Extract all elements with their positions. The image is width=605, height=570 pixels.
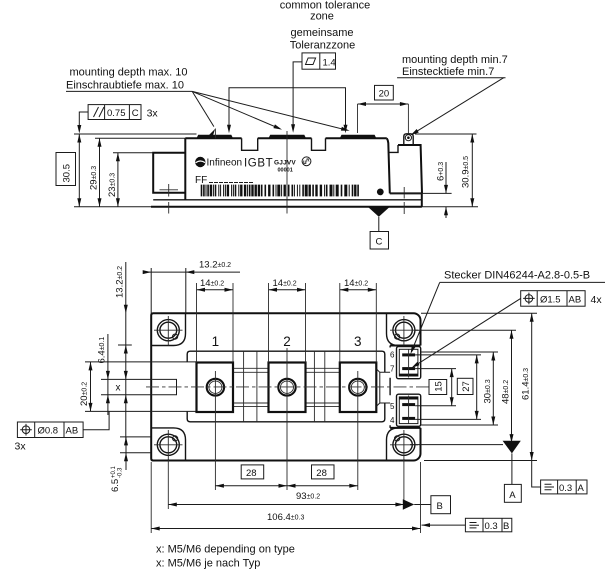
connector shoulder xyxy=(389,145,398,152)
datum B box xyxy=(431,496,451,514)
svg-text:14±0.2: 14±0.2 xyxy=(344,278,368,289)
svg-text:48±0.2: 48±0.2 xyxy=(501,380,512,404)
flatness leader to boss 2 xyxy=(293,62,302,130)
leader fan to bosses xyxy=(192,91,214,126)
main horizontal centerline xyxy=(146,386,432,388)
boss 2 centerline xyxy=(286,131,288,214)
datum C triangle xyxy=(368,207,389,217)
svg-text:61.4±0.3: 61.4±0.3 xyxy=(521,368,532,400)
deck ribs between terminals xyxy=(244,351,325,422)
svg-text:00001: 00001 xyxy=(278,168,293,174)
module body top edge xyxy=(185,137,386,139)
dimension 30.9±0.5 xyxy=(471,134,473,207)
dimension 6.4±0.1 (slot) xyxy=(107,334,109,415)
svg-text:20: 20 xyxy=(379,89,390,100)
dimension 61.4±0.3 xyxy=(531,313,533,483)
dimension 20±0.2 (channel) xyxy=(90,362,92,412)
barcode xyxy=(201,185,359,197)
body right edge xyxy=(387,138,390,193)
svg-text:gemeinsame: gemeinsame xyxy=(291,27,354,39)
dimension 6 +0.3 xyxy=(445,162,447,193)
pin block upper xyxy=(397,347,421,379)
svg-text:IGBT: IGBT xyxy=(244,158,273,170)
svg-text:29±0.3: 29±0.3 xyxy=(89,166,100,190)
svg-text:0.75: 0.75 xyxy=(107,108,126,119)
dimension 30.5 boxed xyxy=(56,153,76,186)
screw boss 3 xyxy=(340,135,377,139)
dimension 14±0.2 terminal 2 xyxy=(269,289,306,291)
svg-text:6.5: 6.5 xyxy=(110,479,121,492)
dimension 48±0.2 xyxy=(511,330,513,444)
module outline xyxy=(151,313,420,460)
dimension 23±0.3 xyxy=(117,153,119,207)
terminal 2 square xyxy=(269,363,306,413)
svg-text:3x: 3x xyxy=(147,108,159,120)
svg-text:A: A xyxy=(578,483,585,494)
connector ledge xyxy=(390,192,422,194)
right channel walls xyxy=(380,372,390,403)
left channel walls xyxy=(152,362,196,412)
hole centerline crosses xyxy=(154,316,418,346)
terminal centerlines extended down xyxy=(215,348,357,490)
svg-text:28: 28 xyxy=(246,468,257,479)
svg-text:30±0.3: 30±0.3 xyxy=(483,379,494,403)
svg-text:3: 3 xyxy=(354,334,362,349)
corner lobe top-right xyxy=(387,313,399,345)
dimension 14±0.2 terminal 1 xyxy=(197,289,234,291)
svg-text:mounting depth min.7: mounting depth min.7 xyxy=(402,54,508,66)
svg-text:4x: 4x xyxy=(591,294,603,306)
svg-text:7: 7 xyxy=(390,365,395,374)
terminal 3 square xyxy=(340,363,377,413)
datum B triangle xyxy=(403,499,414,509)
extension lines left channel/slot xyxy=(85,362,152,412)
svg-text:3x: 3x xyxy=(15,441,27,453)
boss 1 centerline stub xyxy=(214,129,216,139)
svg-text:GJJVV: GJJVV xyxy=(274,160,296,167)
svg-text:AB: AB xyxy=(66,426,79,437)
leader Stecker to pin 6 xyxy=(412,282,440,351)
screw boss 2 xyxy=(269,135,307,139)
svg-text:14±0.2: 14±0.2 xyxy=(200,278,224,289)
dimension 28 boxed second xyxy=(312,465,335,479)
UL mark xyxy=(302,157,311,166)
right edge lower xyxy=(421,193,423,206)
corner lobe bottom-right xyxy=(387,428,399,461)
svg-text:zone: zone xyxy=(310,11,334,23)
svg-text:4: 4 xyxy=(390,416,395,425)
svg-text:x: M5/M6 depending on type: x: M5/M6 depending on type xyxy=(156,544,295,556)
bridge lines between terminals xyxy=(233,368,340,372)
dimension 27 boxed xyxy=(457,378,473,394)
corner lobe bottom-left xyxy=(151,428,185,461)
svg-text:14±0.2: 14±0.2 xyxy=(273,278,297,289)
terminal 1 square xyxy=(197,363,234,413)
svg-text:mounting depth max. 10: mounting depth max. 10 xyxy=(70,67,188,79)
svg-text:Stecker DIN46244-A2.8-0.5-B: Stecker DIN46244-A2.8-0.5-B xyxy=(444,270,590,282)
flatness frame 0.3 A xyxy=(541,480,587,494)
svg-text:Toleranzzone: Toleranzzone xyxy=(290,40,355,52)
pin receptacle circle xyxy=(405,135,411,141)
svg-text:B: B xyxy=(503,521,509,532)
svg-text:23±0.3: 23±0.3 xyxy=(107,173,118,197)
dimension 93±0.2 xyxy=(168,504,404,506)
datum C box xyxy=(370,232,388,250)
left nut slot x xyxy=(152,379,176,394)
flatness frame 0.3 B xyxy=(465,518,511,532)
mounting hole bottom-right xyxy=(393,434,415,455)
bay wall segments xyxy=(389,346,391,428)
leader frame to pin 7 xyxy=(414,298,521,366)
bay ceiling and floor (right recess) xyxy=(390,345,420,347)
svg-text:13.2±0.2: 13.2±0.2 xyxy=(199,260,231,271)
svg-text:Ø0.8: Ø0.8 xyxy=(38,426,59,437)
terminal 2 screw hole xyxy=(278,379,295,396)
dimension 29±0.3 xyxy=(99,138,101,207)
notch between boss1 and boss2 xyxy=(242,138,258,150)
dimension 106.4±0.3 xyxy=(151,528,420,530)
svg-text:FF: FF xyxy=(195,175,207,186)
dimension 30±0.3 xyxy=(492,352,494,425)
dimension 20 boxed xyxy=(375,85,394,100)
notch between boss2 and boss3 xyxy=(312,138,326,150)
dimension 13.2±0.2 vertical left xyxy=(125,262,127,440)
svg-text:x: M5/M6 je nach Typ: x: M5/M6 je nach Typ xyxy=(156,558,260,570)
corner lobe top-left xyxy=(151,313,185,345)
svg-text:AB: AB xyxy=(569,295,582,306)
hole centerline ticks left xyxy=(168,184,170,197)
tolerance zone bracket xyxy=(229,88,346,130)
Infineon logo xyxy=(195,157,205,167)
dimension 14±0.2 terminal 3 xyxy=(340,289,377,291)
datum A triangle xyxy=(503,441,521,454)
svg-text:Einschraubtiefe max. 10: Einschraubtiefe max. 10 xyxy=(66,80,184,92)
svg-text:0.3: 0.3 xyxy=(559,483,572,494)
position frame Ø1.5 AB 4x xyxy=(521,291,585,307)
case bottom line xyxy=(153,199,422,201)
terminal 3 screw hole xyxy=(349,379,366,396)
pin block lower xyxy=(397,394,421,426)
leader from Ø0.8 frame xyxy=(83,411,109,429)
mounting hole bottom-left xyxy=(157,434,179,455)
svg-text:Einstecktiefe min.7: Einstecktiefe min.7 xyxy=(402,66,494,78)
svg-text:15: 15 xyxy=(434,381,445,392)
svg-text:0.3: 0.3 xyxy=(485,521,498,532)
screw head dot xyxy=(377,189,384,196)
baseplate bottom / dimension baseline xyxy=(74,206,478,208)
svg-text:30.5: 30.5 xyxy=(62,164,73,183)
svg-text:28: 28 xyxy=(316,468,327,479)
svg-text:13.2±0.2: 13.2±0.2 xyxy=(115,266,126,298)
pin housing xyxy=(404,134,413,145)
svg-text:1: 1 xyxy=(212,334,220,349)
dimension x (slot) xyxy=(124,371,128,380)
dimension 28 boxed first xyxy=(241,465,264,479)
body left edge xyxy=(184,138,186,200)
dimension 13.2±0.2 horizontal xyxy=(143,271,240,273)
deck outline xyxy=(187,351,385,422)
datum A box xyxy=(504,484,521,502)
terminal 3 right flap xyxy=(376,369,380,407)
hole centerline ticks right xyxy=(403,187,405,199)
svg-text:+0.1: +0.1 xyxy=(111,465,117,478)
svg-text:6.4±0.1: 6.4±0.1 xyxy=(97,337,108,364)
left mounting flange xyxy=(153,153,185,193)
svg-text:20±0.2: 20±0.2 xyxy=(79,382,90,406)
svg-text:C: C xyxy=(132,108,139,119)
extension line boss-top plane xyxy=(74,133,197,135)
svg-text:6: 6 xyxy=(390,351,395,360)
svg-text:27: 27 xyxy=(461,381,472,392)
screw boss 1 xyxy=(197,135,234,139)
connector block top and right edge xyxy=(398,145,422,193)
leader to pin xyxy=(412,78,504,135)
svg-text:A: A xyxy=(509,490,516,501)
svg-text:6+0.3: 6+0.3 xyxy=(436,162,447,181)
svg-text:Ø1.5: Ø1.5 xyxy=(540,295,561,306)
parallelism frame // 0.75 C 3x xyxy=(88,105,141,120)
flatness frame 1.4 xyxy=(302,53,336,69)
svg-text:30.9±0.5: 30.9±0.5 xyxy=(461,156,472,188)
svg-text:93±0.2: 93±0.2 xyxy=(296,491,320,502)
dimension 6.5 hole diameter xyxy=(120,437,151,453)
mounting hole top-right xyxy=(393,320,415,341)
dimension line 28-28 chain xyxy=(215,485,357,487)
svg-text:106.4±0.3: 106.4±0.3 xyxy=(267,512,304,523)
svg-text:B: B xyxy=(437,501,443,512)
svg-text:5: 5 xyxy=(390,402,395,411)
position frame Ø0.8 AB xyxy=(17,422,83,438)
svg-text:1.4: 1.4 xyxy=(323,58,336,69)
svg-text:x: x xyxy=(116,383,121,394)
svg-text:Infineon: Infineon xyxy=(207,158,243,169)
terminal 1 screw hole xyxy=(207,379,224,396)
svg-text:C: C xyxy=(376,237,383,248)
svg-text:-0.3: -0.3 xyxy=(118,467,124,478)
dimension 15 boxed xyxy=(429,380,447,395)
mounting hole top-left xyxy=(157,320,179,341)
svg-text:2: 2 xyxy=(283,334,291,349)
